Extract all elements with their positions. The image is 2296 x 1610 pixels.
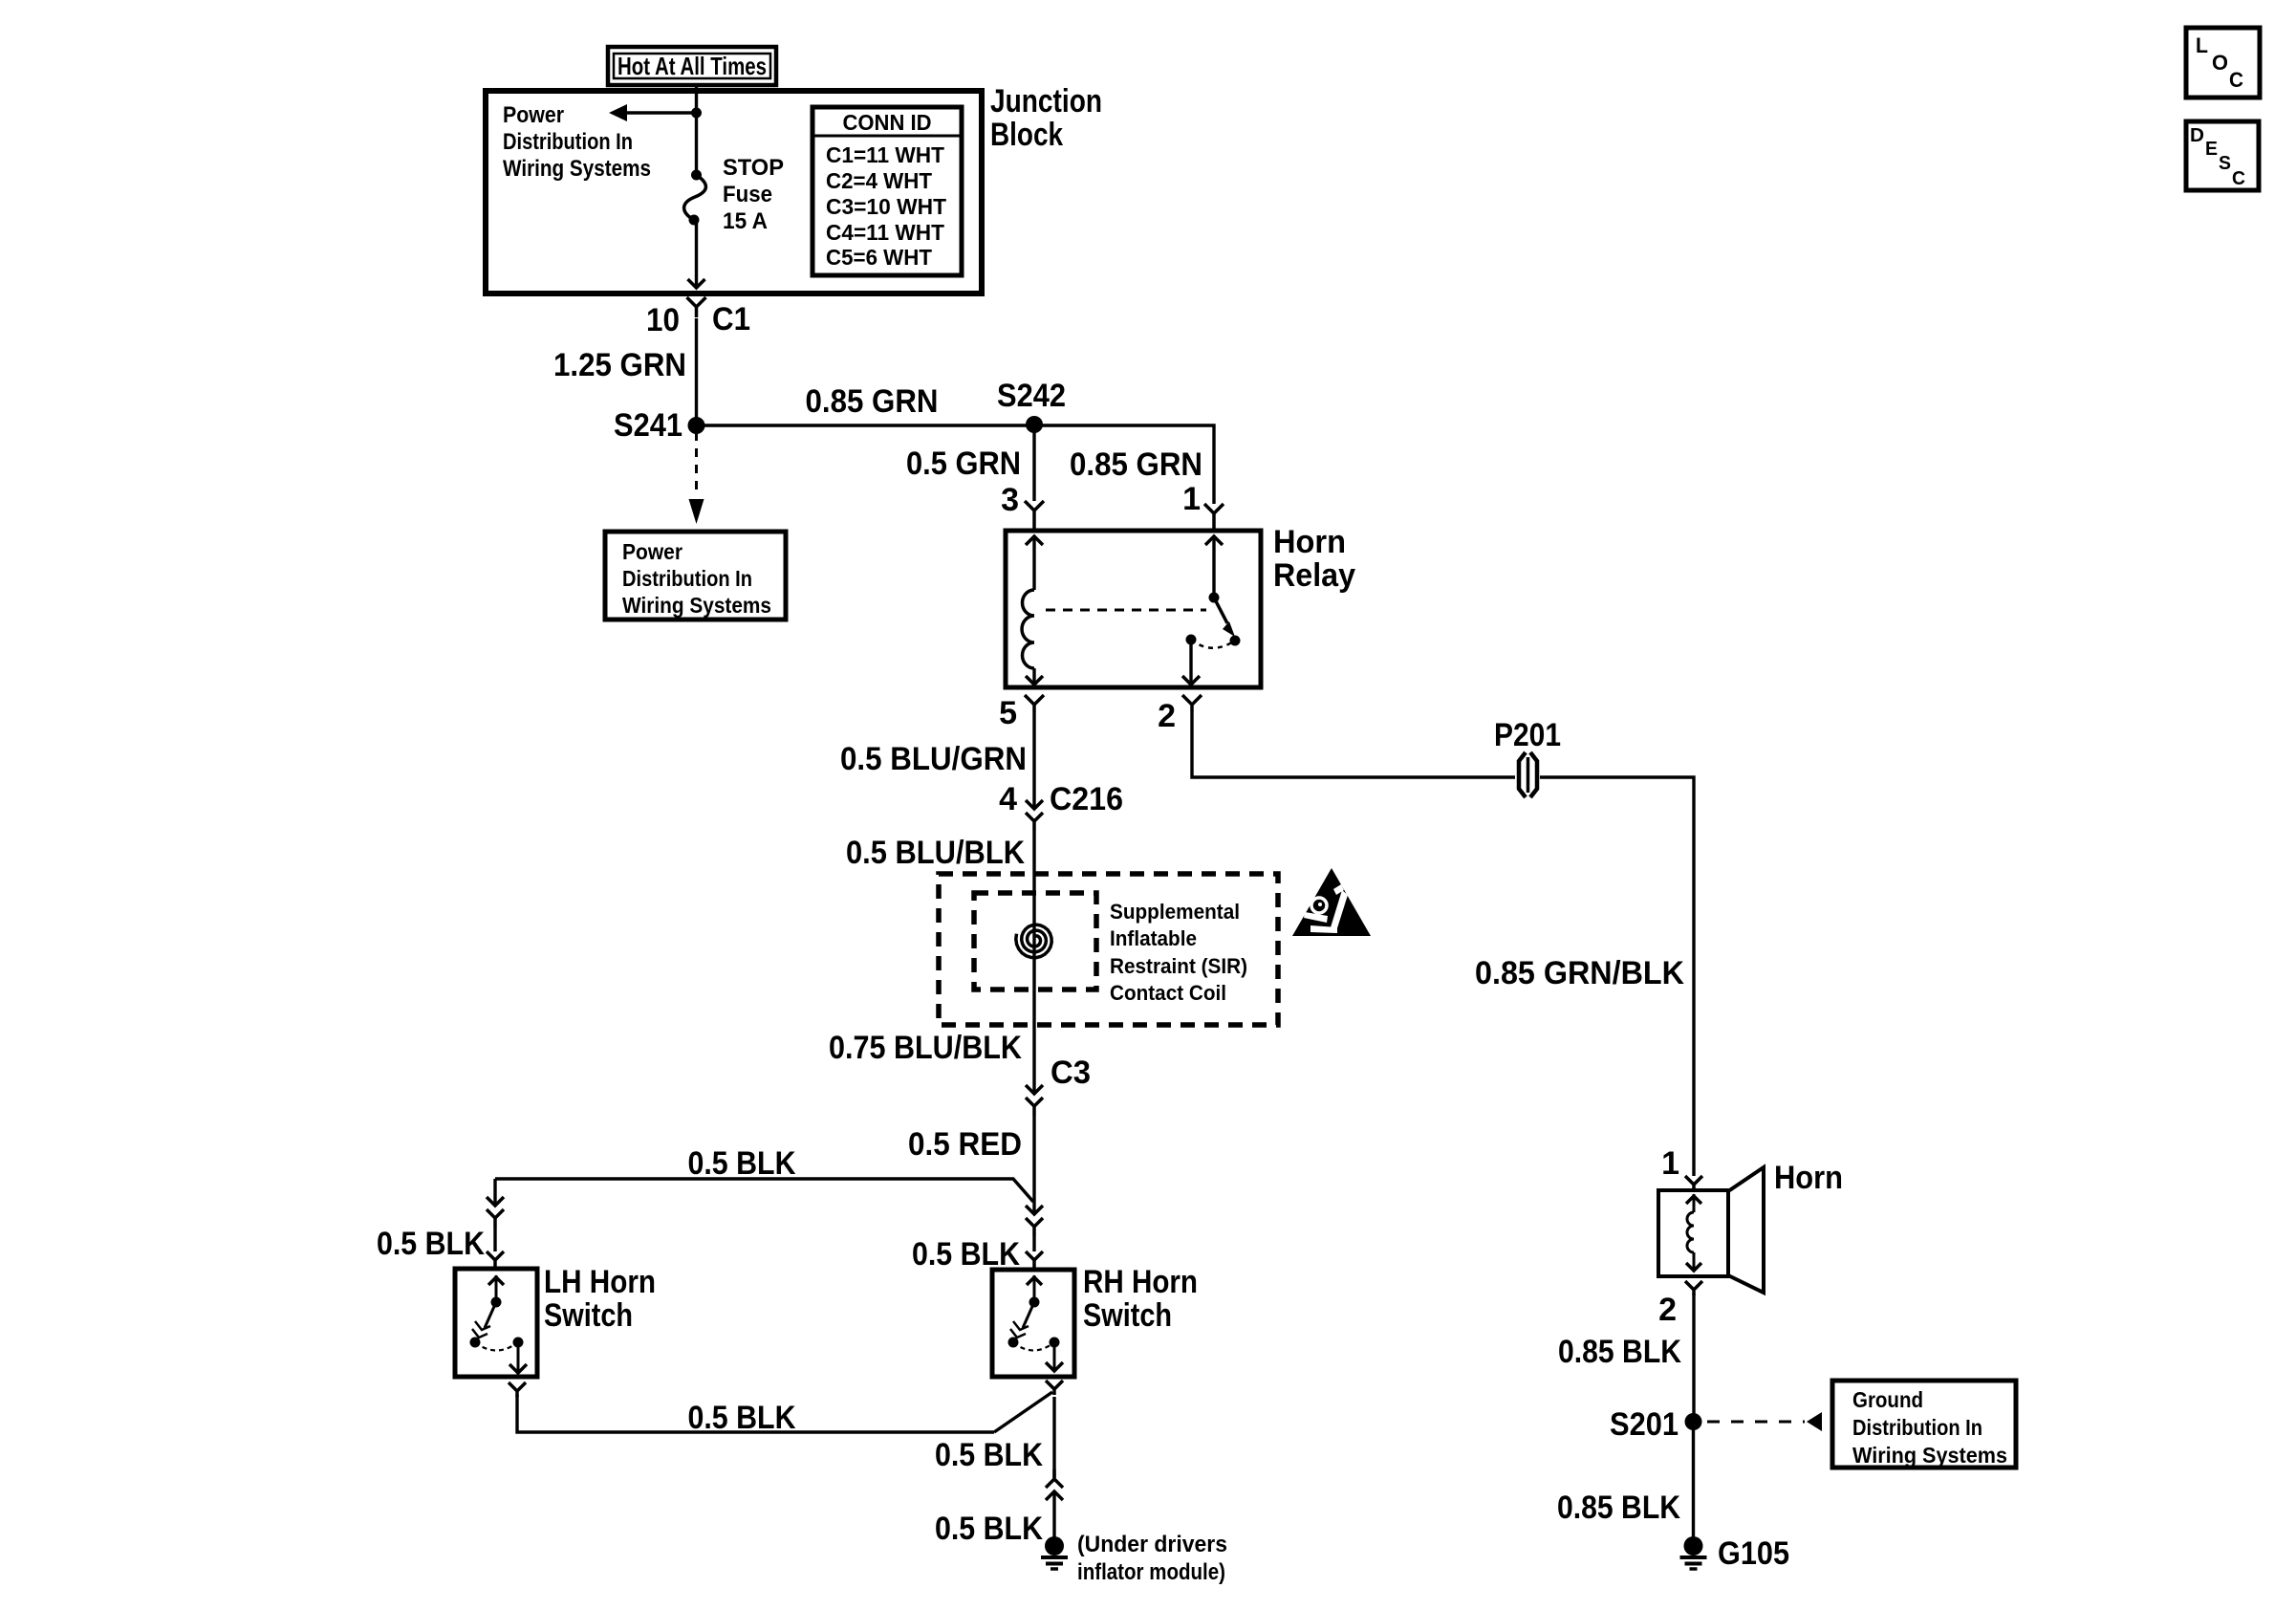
svg-text:Hot At All Times: Hot At All Times: [617, 52, 767, 80]
inline connector (inflator): [1046, 1469, 1063, 1488]
svg-text:0.5 GRN: 0.5 GRN: [906, 446, 1021, 482]
DESC hotspot icon: [2186, 121, 2259, 190]
LOC hotspot icon: [2186, 28, 2260, 98]
wire through SIR coil: [1032, 893, 1035, 990]
arrow to power distribution: [627, 111, 697, 114]
relay switch arm: [1214, 598, 1227, 623]
wire to LH switch: [493, 1228, 496, 1251]
svg-text:Horn: Horn: [1273, 524, 1346, 560]
relay pin 3 connector: [1025, 501, 1044, 531]
svg-text:C3: C3: [1051, 1055, 1091, 1091]
svg-text:0.5 BLK: 0.5 BLK: [377, 1226, 485, 1262]
svg-text:D: D: [2190, 125, 2204, 146]
horn speaker cone: [1728, 1167, 1764, 1293]
wire 0.85 BLK horn to S201: [1692, 1294, 1695, 1422]
RH switch contacts: [1008, 1338, 1019, 1348]
svg-text:Power: Power: [622, 539, 682, 564]
relay actuation dashed link: [1046, 609, 1206, 612]
splice S242: [1026, 416, 1043, 433]
svg-text:1: 1: [1182, 481, 1201, 517]
LH horn switch box: [455, 1269, 537, 1377]
svg-text:4: 4: [999, 781, 1017, 817]
node junction-block feed dot: [691, 108, 702, 119]
horn pin 1 connector: [1685, 1176, 1702, 1190]
svg-text:inflator module): inflator module): [1077, 1559, 1225, 1585]
svg-text:Distribution In: Distribution In: [1852, 1415, 1982, 1440]
wire hot feed into junction block: [695, 85, 698, 175]
svg-text:0.85 GRN: 0.85 GRN: [1070, 446, 1202, 483]
svg-text:10: 10: [646, 302, 680, 338]
dashed wire to power distribution: [695, 432, 698, 493]
svg-text:LH Horn: LH Horn: [544, 1264, 656, 1300]
svg-text:0.5 BLK: 0.5 BLK: [935, 1511, 1043, 1547]
RH switch common: [1033, 1275, 1036, 1302]
svg-text:S: S: [2219, 153, 2231, 174]
svg-text:STOP: STOP: [723, 155, 784, 181]
svg-text:0.85 GRN/BLK: 0.85 GRN/BLK: [1475, 955, 1684, 991]
svg-text:C216: C216: [1050, 781, 1123, 817]
svg-text:C1: C1: [712, 301, 750, 337]
splice S241: [688, 417, 705, 434]
LH switch output: [517, 1342, 520, 1373]
svg-text:0.5 RED: 0.5 RED: [908, 1126, 1022, 1163]
svg-text:Ground: Ground: [1852, 1387, 1923, 1412]
relay pin 1 connector: [1204, 504, 1224, 531]
svg-text:Supplemental: Supplemental: [1110, 900, 1240, 924]
LH switch bottom connector: [509, 1382, 526, 1397]
power distribution reference box: [605, 532, 786, 620]
svg-text:0.5 BLU/BLK: 0.5 BLU/BLK: [846, 835, 1025, 871]
fuse STOP 15 A: [691, 170, 702, 181]
wire 0.85 GRN to relay pin 1: [1034, 425, 1214, 504]
svg-text:Distribution In: Distribution In: [622, 566, 752, 591]
svg-text:C: C: [2232, 168, 2245, 189]
svg-text:S241: S241: [614, 407, 682, 444]
RH switch output: [1053, 1342, 1056, 1371]
svg-text:G105: G105: [1718, 1535, 1789, 1572]
svg-text:Distribution In: Distribution In: [503, 129, 633, 155]
svg-text:CONN ID: CONN ID: [843, 110, 932, 135]
horn box: [1658, 1190, 1728, 1276]
diagonal joint from LH lower run: [994, 1392, 1052, 1432]
svg-text:Junction: Junction: [990, 83, 1102, 120]
Hot At All Times box: [608, 47, 776, 85]
svg-text:0.85 BLK: 0.85 BLK: [1558, 1334, 1681, 1370]
connector C1 pin 10: [687, 297, 706, 317]
svg-text:0.75 BLU/BLK: 0.75 BLU/BLK: [829, 1030, 1022, 1066]
wire 0.85 BLK S201 to G105: [1692, 1422, 1695, 1539]
junction block: [486, 91, 982, 294]
svg-text:Wiring Systems: Wiring Systems: [503, 156, 651, 182]
ground (under drivers inflator module): [1052, 1491, 1055, 1541]
svg-text:C: C: [2229, 68, 2243, 92]
svg-text:C1=11 WHT: C1=11 WHT: [826, 142, 944, 167]
connector P201: [1519, 752, 1526, 797]
wire 0.75 BLU/BLK: [1032, 990, 1035, 1094]
CONN ID table: [812, 107, 962, 275]
relay contact dashed arc: [1191, 640, 1235, 648]
relay pin 2 connector: [1182, 695, 1202, 712]
wire fuse to connector C1: [695, 220, 698, 288]
svg-text:0.85 BLK: 0.85 BLK: [1557, 1490, 1680, 1526]
RH switch dashed arc: [1013, 1342, 1054, 1351]
svg-text:Switch: Switch: [544, 1297, 633, 1334]
svg-text:0.5 BLK: 0.5 BLK: [912, 1236, 1020, 1273]
svg-text:S242: S242: [997, 378, 1066, 414]
svg-text:E: E: [2205, 139, 2218, 160]
RH switch bottom connector: [1046, 1381, 1063, 1395]
SIR outer dashed box: [939, 874, 1278, 1025]
inline connector (RH feed): [1026, 1206, 1043, 1214]
svg-text:2: 2: [1158, 698, 1176, 734]
svg-text:Inflatable: Inflatable: [1110, 926, 1197, 950]
svg-text:15 A: 15 A: [723, 208, 768, 234]
svg-text:1: 1: [1661, 1145, 1679, 1182]
svg-text:0.5 BLU/GRN: 0.5 BLU/GRN: [840, 741, 1027, 777]
wire 0.85 GRN/BLK: [1540, 777, 1694, 1176]
svg-text:1.25 GRN: 1.25 GRN: [553, 347, 686, 383]
svg-text:Power: Power: [503, 102, 564, 128]
svg-text:Wiring Systems: Wiring Systems: [622, 593, 771, 618]
wire LH switch to lower run: [517, 1395, 994, 1432]
wire 0.5 RED: [1032, 1116, 1035, 1214]
svg-text:0.5 BLK: 0.5 BLK: [688, 1145, 796, 1182]
svg-text:RH Horn: RH Horn: [1083, 1264, 1198, 1300]
horn pin 2 connector: [1685, 1281, 1702, 1295]
svg-text:C4=11 WHT: C4=11 WHT: [826, 220, 944, 245]
RH switch top connector: [1026, 1251, 1043, 1269]
horn coil element: [1693, 1194, 1696, 1212]
svg-text:Switch: Switch: [1083, 1297, 1172, 1334]
LH switch dashed arc: [475, 1342, 518, 1351]
svg-text:O: O: [2212, 51, 2228, 75]
relay output to pin 2: [1189, 640, 1192, 685]
svg-text:C2=4 WHT: C2=4 WHT: [826, 168, 932, 193]
svg-text:Block: Block: [990, 117, 1063, 153]
svg-text:C3=10 WHT: C3=10 WHT: [826, 194, 946, 219]
connector C3: [1026, 1085, 1043, 1094]
svg-text:0.5 BLK: 0.5 BLK: [688, 1400, 796, 1436]
svg-text:Restraint (SIR): Restraint (SIR): [1110, 954, 1247, 978]
svg-text:Contact Coil: Contact Coil: [1110, 981, 1226, 1005]
svg-text:Horn: Horn: [1774, 1160, 1843, 1196]
svg-text:L: L: [2196, 33, 2208, 57]
ground G105: [1684, 1536, 1703, 1556]
inline connector (LH drop): [493, 1179, 496, 1206]
svg-text:C5=6 WHT: C5=6 WHT: [826, 245, 932, 270]
wire 0.85 GRN S241 to S242: [697, 424, 1035, 426]
wire 1.25 GRN: [695, 318, 698, 425]
wire 0.5 BLK upper run: [495, 1179, 1033, 1202]
wire RH switch down: [1052, 1397, 1055, 1478]
wire 0.5 BLU/GRN: [1032, 712, 1035, 809]
relay switch common: [1212, 535, 1215, 598]
svg-text:0.5 BLK: 0.5 BLK: [935, 1437, 1043, 1473]
svg-text:(Under drivers: (Under drivers: [1077, 1532, 1227, 1557]
horn relay box: [1006, 531, 1261, 687]
splice S201: [1685, 1413, 1702, 1430]
RH horn switch box: [992, 1270, 1074, 1377]
dashed link to ground distribution: [1707, 1421, 1805, 1424]
SIR contact coil spiral: [1016, 925, 1051, 958]
svg-text:3: 3: [1001, 482, 1019, 518]
relay contact dots: [1186, 635, 1197, 645]
svg-text:Fuse: Fuse: [723, 182, 772, 207]
ground distribution reference box: [1832, 1381, 2016, 1468]
SIR inner dashed box: [974, 893, 1096, 990]
svg-text:P201: P201: [1494, 717, 1561, 753]
svg-text:Wiring Systems: Wiring Systems: [1852, 1443, 2007, 1468]
SIR warning triangle: [1292, 868, 1371, 936]
LH switch common: [495, 1275, 498, 1302]
wire 0.5 BLK to RH switch: [1032, 1236, 1035, 1251]
relay pin 5 connector: [1025, 695, 1044, 712]
connector C216: [1026, 800, 1043, 809]
wire pin2 to P201: [1192, 712, 1515, 777]
svg-text:2: 2: [1658, 1292, 1677, 1328]
wire 0.5 BLU/BLK: [1032, 831, 1035, 893]
RH switch arm: [1023, 1302, 1034, 1328]
relay coil: [1032, 535, 1035, 590]
LH switch arm: [485, 1302, 496, 1328]
wire 0.5 GRN to relay pin 3: [1032, 424, 1035, 501]
svg-text:0.85 GRN: 0.85 GRN: [806, 383, 939, 420]
svg-text:5: 5: [999, 695, 1017, 731]
LH switch top connector: [487, 1251, 504, 1268]
LH switch contacts: [470, 1338, 481, 1348]
svg-text:Relay: Relay: [1273, 557, 1355, 594]
svg-text:S201: S201: [1610, 1406, 1679, 1443]
